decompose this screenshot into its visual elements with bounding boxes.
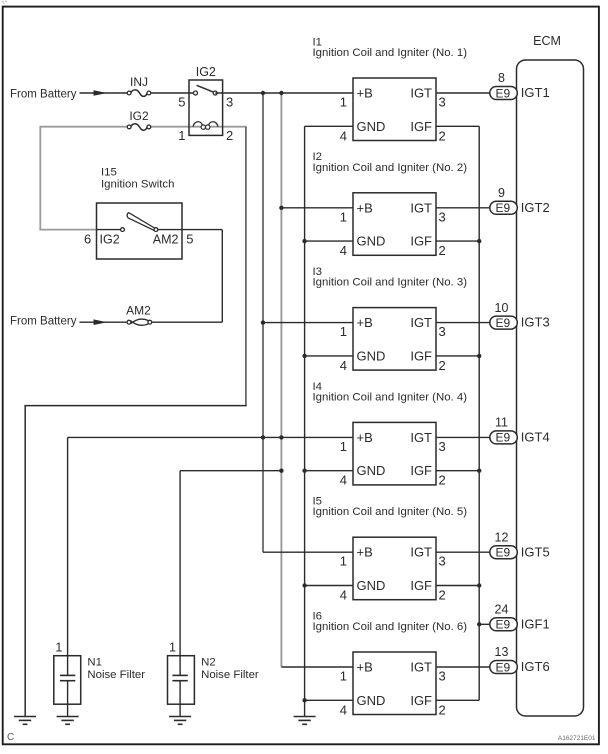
label I6 <box>313 610 468 633</box>
wire: +B to coil I4 with noise filter N1 branch <box>68 436 353 438</box>
svg-text:4: 4 <box>340 588 347 603</box>
relay pin 2 <box>226 128 233 143</box>
wire: I1 IGT to ECM <box>436 92 491 94</box>
node: N2 tap <box>279 469 283 473</box>
connector E9 pin 8 (IGT1) <box>490 71 550 100</box>
svg-text:4: 4 <box>340 358 347 373</box>
svg-text:GND: GND <box>357 578 386 593</box>
svg-text:2: 2 <box>439 358 446 373</box>
switch terminal label AM2 <box>153 232 179 246</box>
ignition switch I15 box <box>97 203 183 259</box>
svg-text:C: C <box>7 732 14 743</box>
connector E9 pin 13 (IGT6) <box>490 645 550 674</box>
relay pin 3 <box>226 94 233 109</box>
node: I3 tap <box>261 320 265 324</box>
node: I4 taps <box>261 435 284 439</box>
svg-text:3: 3 <box>226 94 233 109</box>
connector E9 pin 12 (IGT5) <box>490 530 550 559</box>
label I1 <box>313 36 468 59</box>
svg-text:E9: E9 <box>495 546 510 560</box>
svg-text:+B: +B <box>357 200 373 215</box>
ignition coil and igniter I2 <box>340 193 446 258</box>
connector E9 pin 11 (IGT4) <box>490 416 550 445</box>
wire: gray riser from IG2 fuse to ignition switch pin 6 <box>39 126 96 230</box>
svg-text:E9: E9 <box>495 660 510 674</box>
label I15 Ignition Switch <box>101 167 174 191</box>
svg-text:N2: N2 <box>201 657 216 669</box>
svg-text:12: 12 <box>495 530 509 544</box>
svg-text:IGT: IGT <box>410 660 432 675</box>
label fuse AM2 <box>126 304 151 318</box>
svg-text:2: 2 <box>439 702 446 717</box>
svg-text:10: 10 <box>495 301 509 315</box>
wire: switch pin 5 to AM2 fuse line <box>151 230 222 323</box>
svg-text:Ignition Coil and Igniter (No.: Ignition Coil and Igniter (No. 6) <box>313 621 468 633</box>
svg-text:IGT: IGT <box>410 86 432 101</box>
svg-text:GND: GND <box>357 119 386 134</box>
svg-text:GND: GND <box>357 693 386 708</box>
svg-text:Ignition Coil and Igniter (No.: Ignition Coil and Igniter (No. 4) <box>313 391 468 403</box>
ignition switch blade <box>127 213 155 231</box>
label N2 <box>201 657 259 682</box>
label N1 pin 1 <box>55 640 62 654</box>
svg-text:IGT6: IGT6 <box>521 659 550 674</box>
svg-text:IGT1: IGT1 <box>521 85 550 100</box>
svg-text:3: 3 <box>439 669 446 684</box>
ignition coil and igniter I5 <box>340 537 446 602</box>
svg-text:GND: GND <box>357 463 386 478</box>
svg-text:4: 4 <box>340 128 347 143</box>
switch terminal label IG2 <box>100 232 120 246</box>
svg-text:IG2: IG2 <box>196 65 216 79</box>
node: IGF bus junctions <box>477 239 481 627</box>
svg-text:N1: N1 <box>87 657 102 669</box>
fuse INJ <box>127 90 151 96</box>
svg-text:3: 3 <box>439 439 446 454</box>
svg-text:IGF: IGF <box>410 348 432 363</box>
label I4 <box>313 381 468 404</box>
label From Battery (top) <box>10 88 77 100</box>
svg-text:ECM: ECM <box>533 34 561 48</box>
svg-text:2: 2 <box>439 473 446 488</box>
svg-text:+B: +B <box>357 660 373 675</box>
node: I2 tap <box>279 206 283 210</box>
svg-text:IGF: IGF <box>410 119 432 134</box>
switch pin 5 <box>186 231 193 246</box>
svg-text:IGT3: IGT3 <box>521 315 550 330</box>
ignition coil and igniter I3 <box>340 308 446 373</box>
svg-text:1: 1 <box>340 95 347 110</box>
svg-text:+B: +B <box>357 86 373 101</box>
svg-text:IG2: IG2 <box>129 109 149 123</box>
svg-text:IGF: IGF <box>410 693 432 708</box>
label ECM <box>533 34 561 48</box>
svg-text:IGT5: IGT5 <box>521 544 550 559</box>
label I3 <box>313 266 468 289</box>
svg-text:+B: +B <box>357 430 373 445</box>
ground for N2 <box>169 717 191 725</box>
ground for ignition coils <box>294 717 316 725</box>
relay pin 5 <box>178 94 185 109</box>
svg-text:1: 1 <box>169 640 176 654</box>
wire: +B to coil I6 <box>281 666 353 668</box>
ignition coil and igniter I6 <box>340 652 446 717</box>
svg-text:5: 5 <box>178 94 185 109</box>
svg-text:+B: +B <box>357 315 373 330</box>
svg-text:IGF: IGF <box>410 578 432 593</box>
ignition switch terminals <box>121 228 158 232</box>
label I5 <box>313 496 468 519</box>
svg-text:AM2: AM2 <box>153 232 179 246</box>
switch pin 6 <box>84 231 91 246</box>
svg-text:3: 3 <box>439 324 446 339</box>
svg-text:INJ: INJ <box>130 75 148 89</box>
ECM box <box>517 60 584 716</box>
ignition coil and igniter I4 <box>340 422 446 487</box>
noise filter N2 (capacitor) <box>168 656 195 717</box>
wire: I3 IGT to ECM <box>436 322 491 324</box>
label I2 <box>313 151 468 174</box>
svg-text:IGT: IGT <box>410 545 432 560</box>
svg-text:13: 13 <box>495 645 509 659</box>
svg-text:3: 3 <box>439 209 446 224</box>
connector E9 pin 10 (IGT3) <box>490 301 550 330</box>
wire: +B feeder vertical A <box>262 93 264 552</box>
svg-text:I15: I15 <box>101 167 117 179</box>
svg-text:E9: E9 <box>495 431 510 445</box>
wire: From Battery to AM2 fuse <box>80 319 128 325</box>
wire: +B to coil I5 <box>263 551 353 553</box>
svg-text:E9: E9 <box>495 618 510 632</box>
connector E9 pin 9 (IGT2) <box>490 186 550 215</box>
svg-text:A162721E01: A162721E01 <box>558 735 596 742</box>
svg-text:E9: E9 <box>495 86 510 100</box>
svg-text:11: 11 <box>495 416 508 430</box>
svg-text:IGT: IGT <box>410 430 432 445</box>
svg-text:2: 2 <box>439 243 446 258</box>
svg-text:1: 1 <box>55 640 62 654</box>
svg-text:Ignition Switch: Ignition Switch <box>101 178 174 190</box>
svg-text:2: 2 <box>439 128 446 143</box>
svg-text:4: 4 <box>340 473 347 488</box>
svg-text:IGT2: IGT2 <box>521 200 550 215</box>
svg-text:2: 2 <box>226 128 233 143</box>
connector E9 pin 24 (IGF1) <box>490 603 550 632</box>
svg-text:IGF: IGF <box>410 463 432 478</box>
noise filter N1 (capacitor) <box>54 656 81 717</box>
svg-text:1: 1 <box>340 554 347 569</box>
wire: IG2 fuse row (gray) from node through relay coil to pin 2 corner <box>40 126 246 128</box>
relay IG2 coil <box>193 122 218 130</box>
svg-text:AM2: AM2 <box>126 304 151 318</box>
node: GND bus junctions <box>302 239 306 703</box>
svg-text:3: 3 <box>439 95 446 110</box>
label N2 pin 1 <box>169 640 176 654</box>
svg-text:Noise Filter: Noise Filter <box>87 669 145 681</box>
svg-text:Noise Filter: Noise Filter <box>201 669 259 681</box>
svg-text:Ignition Coil and Igniter (No.: Ignition Coil and Igniter (No. 1) <box>313 47 468 59</box>
wire: I5 IGT to ECM <box>436 551 491 553</box>
label N1 <box>87 657 145 682</box>
label From Battery (bottom) <box>10 316 77 328</box>
wire: IGF bus to ECM IGF1 <box>436 126 491 700</box>
svg-text:4: 4 <box>340 243 347 258</box>
wire: noise filter N2 branch <box>180 471 281 657</box>
svg-text:3: 3 <box>439 554 446 569</box>
svg-text:From Battery: From Battery <box>10 316 77 328</box>
relay IG2 contact blade <box>197 85 215 92</box>
wire: relay pin 2 down-left to ground <box>24 127 246 717</box>
wire: +B main from relay pin 3 to coil I1 pin 1 <box>215 92 353 94</box>
fuse AM2 <box>127 319 152 325</box>
svg-text:GND: GND <box>357 234 386 249</box>
svg-text:Ignition Coil and Igniter (No.: Ignition Coil and Igniter (No. 2) <box>313 162 468 174</box>
svg-text:4: 4 <box>340 702 347 717</box>
wire: +B feeder vertical B (gray) <box>280 93 282 667</box>
svg-text:1: 1 <box>340 324 347 339</box>
svg-text:Ignition Coil and Igniter (No.: Ignition Coil and Igniter (No. 3) <box>313 277 468 289</box>
svg-text:Ignition Coil and Igniter (No.: Ignition Coil and Igniter (No. 5) <box>313 506 468 518</box>
wire: +B to coil I2 <box>281 207 353 209</box>
relay pin 1 <box>178 128 185 143</box>
fuse IG2 <box>127 124 151 130</box>
wire: GND bus collecting coil grounds <box>305 126 353 716</box>
svg-text:IG2: IG2 <box>100 232 120 246</box>
svg-text:IGT: IGT <box>410 200 432 215</box>
svg-text:IGT4: IGT4 <box>521 430 550 445</box>
svg-text:5: 5 <box>186 231 193 246</box>
svg-text:IGT: IGT <box>410 315 432 330</box>
svg-text:E9: E9 <box>495 201 510 215</box>
label fuse INJ <box>130 75 148 89</box>
wire: ignition switch inner stubs <box>97 229 183 231</box>
svg-text:+B: +B <box>357 545 373 560</box>
node: +B taps on main line <box>261 91 284 95</box>
wire: I4 IGT to ECM <box>436 436 491 438</box>
ignition coil and igniter I1 <box>340 78 446 143</box>
svg-text:IGF: IGF <box>410 234 432 249</box>
svg-text:24: 24 <box>495 603 509 617</box>
ground for N1 <box>57 717 79 725</box>
svg-text:GND: GND <box>357 348 386 363</box>
svg-text:6: 6 <box>84 231 91 246</box>
svg-text:IGF1: IGF1 <box>521 616 550 631</box>
svg-text:E9: E9 <box>495 316 510 330</box>
wire: I2 IGT to ECM <box>436 207 491 209</box>
wire: From Battery to INJ fuse and relay pin 5 <box>80 90 196 96</box>
relay IG2 contact terminals <box>194 91 218 95</box>
relay IG2 box <box>189 80 223 135</box>
label relay IG2 <box>196 65 216 79</box>
label fuse IG2 <box>129 109 149 123</box>
wire: I6 IGT to ECM <box>436 666 491 668</box>
svg-text:9: 9 <box>498 186 505 200</box>
svg-text:1: 1 <box>340 669 347 684</box>
wire: +B to coil I3 <box>263 322 353 324</box>
svg-text:From Battery: From Battery <box>10 88 77 100</box>
ground for relay coil return <box>14 717 36 725</box>
wire: noise filter N1 lead <box>67 437 69 656</box>
svg-text:1: 1 <box>340 439 347 454</box>
svg-text:8: 8 <box>498 71 505 85</box>
svg-text:1: 1 <box>340 209 347 224</box>
svg-text:1: 1 <box>178 128 185 143</box>
svg-text:2: 2 <box>439 588 446 603</box>
